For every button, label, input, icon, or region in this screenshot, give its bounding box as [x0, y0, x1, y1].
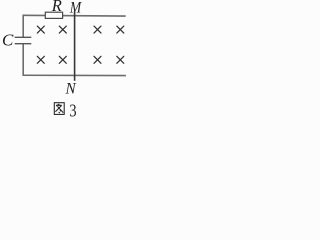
magnetic field region (B into page) crosses: [37, 26, 124, 63]
resistor R box: [45, 12, 62, 18]
wire left upper segment: [22, 15, 24, 38]
svg-text:C: C: [2, 31, 14, 50]
wire bottom rail: [23, 74, 126, 76]
svg-text:M: M: [69, 0, 83, 17]
capacitor C plates: [15, 37, 32, 43]
svg-text:R: R: [51, 0, 62, 15]
svg-text:3: 3: [69, 100, 76, 121]
caption character tu (drawn glyph for CJK): [54, 103, 64, 115]
background: [0, 0, 128, 122]
wire top rail: [23, 14, 126, 17]
svg-text:N: N: [65, 80, 78, 97]
wire left lower segment: [22, 44, 24, 76]
rod MN: [74, 12, 76, 81]
